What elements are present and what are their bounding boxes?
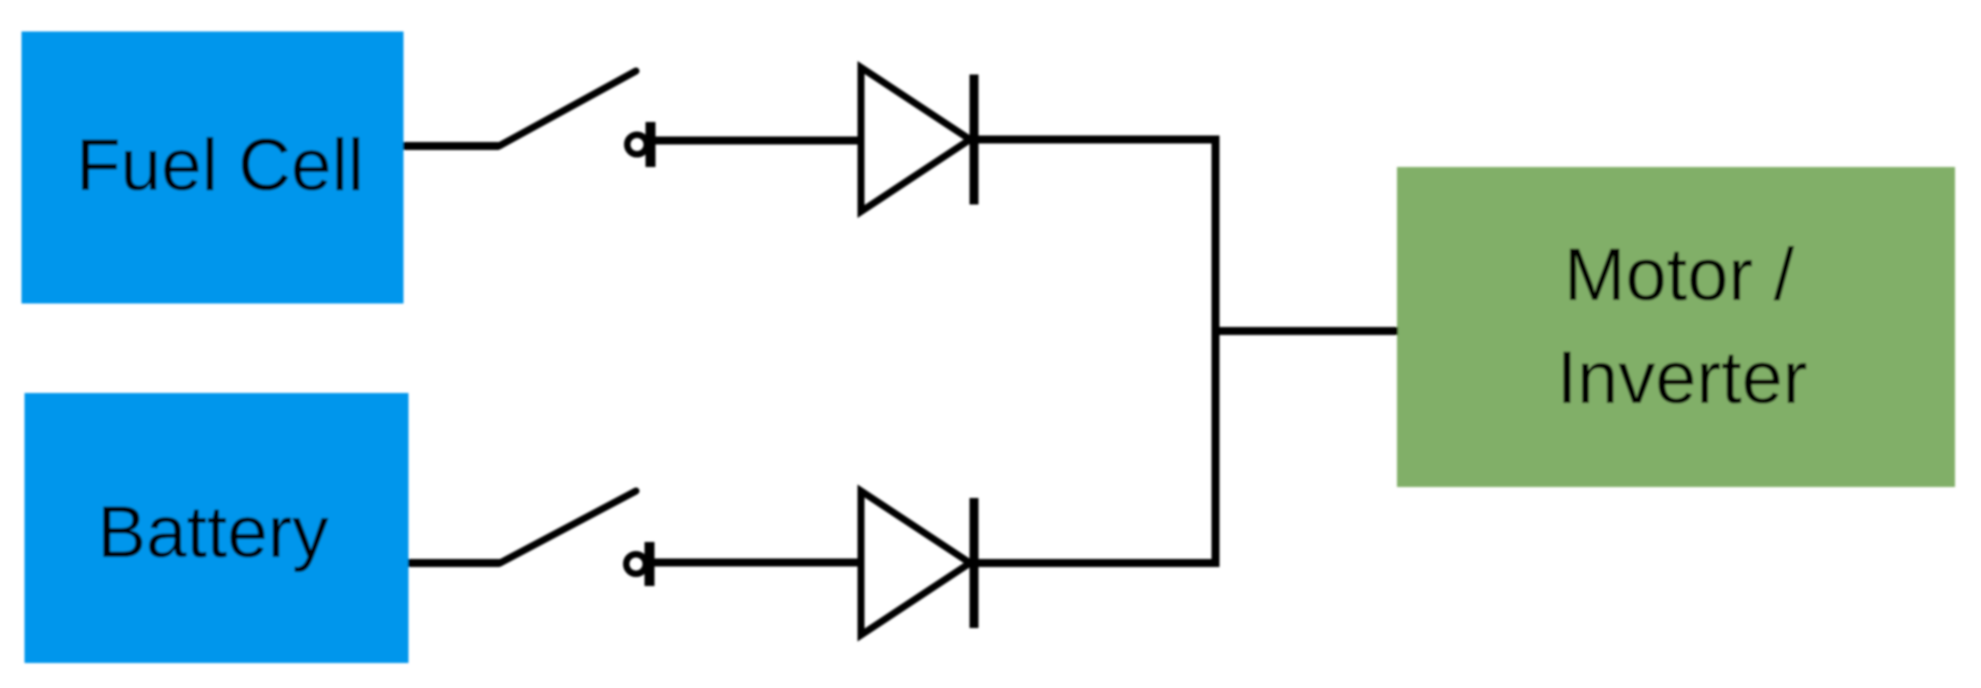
wire: DC bus node to Motor / Inverter input xyxy=(1212,327,1399,335)
svg-text:Fuel Cell: Fuel Cell xyxy=(76,125,364,206)
wire: diode D1 cathode to DC bus node xyxy=(964,136,1219,144)
switch S2 fixed contact circle xyxy=(626,554,646,574)
switch S1 fixed contact bar xyxy=(646,122,656,167)
wire: DC bus vertical segment xyxy=(1212,136,1220,568)
wire: switch S2 to diode D2 anode xyxy=(653,559,862,567)
diode D2 triangle (anode, battery branch) xyxy=(861,491,970,635)
wire: Battery output to switch S2 pole xyxy=(408,559,500,567)
switch S1 blade (open, fuel-cell branch) xyxy=(499,71,636,146)
switch S1 fixed contact circle xyxy=(627,135,647,155)
wire: Fuel Cell output to switch S1 pole xyxy=(403,142,499,150)
block: Battery (blue source box) xyxy=(25,393,409,663)
wire: switch S1 to diode D1 anode xyxy=(653,137,862,145)
wire: diode D2 cathode to DC bus node xyxy=(964,559,1219,567)
svg-text:Battery: Battery xyxy=(97,492,329,573)
switch S2 blade (open, battery branch) xyxy=(500,491,636,563)
diode D1 triangle (anode, fuel-cell branch) xyxy=(861,68,970,212)
block: Motor / Inverter (green load box) xyxy=(1397,167,1955,487)
diode D2 cathode bar xyxy=(970,498,979,628)
diode D1 cathode bar xyxy=(970,75,979,205)
block: Fuel Cell (blue source box) xyxy=(22,32,404,304)
svg-text:Inverter: Inverter xyxy=(1557,336,1808,419)
switch S2 fixed contact bar xyxy=(645,542,655,586)
svg-text:Motor /: Motor / xyxy=(1564,233,1795,316)
